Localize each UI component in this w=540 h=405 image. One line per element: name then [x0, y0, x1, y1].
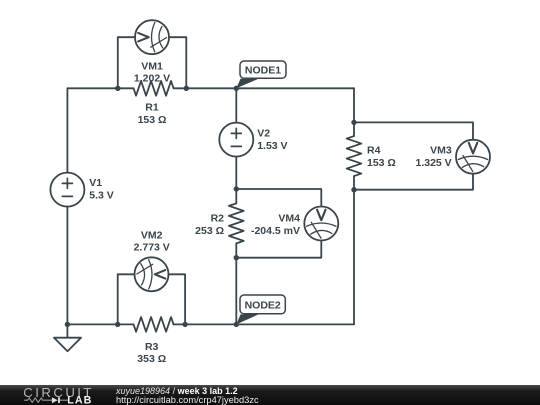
svg-text:1.325 V: 1.325 V — [415, 157, 451, 169]
resistor R4 — [347, 136, 362, 176]
wire left branch upper — [66, 88, 68, 172]
node flag NODE2 — [236, 295, 285, 324]
junction ground connection — [65, 322, 70, 327]
voltage source V1 — [50, 173, 84, 207]
junction R4 bottom / VM3 loop — [351, 187, 356, 192]
ground — [54, 324, 81, 351]
voltage source V2 — [219, 123, 253, 157]
wire left branch lower — [66, 207, 68, 325]
resistor R3 — [134, 317, 174, 332]
svg-text:R4: R4 — [367, 145, 381, 157]
svg-text:-204.5 mV: -204.5 mV — [251, 225, 300, 237]
wire bottom right to R3 — [174, 323, 354, 325]
footer credit line 2 — [116, 395, 259, 405]
wire voltmeter VM3 loop bottom — [354, 174, 473, 190]
svg-text:V2: V2 — [257, 128, 270, 140]
wire voltmeter VM3 loop top — [354, 122, 473, 139]
svg-text:253 Ω: 253 Ω — [195, 225, 224, 237]
svg-text:R3: R3 — [145, 341, 159, 353]
junction VM2 left on bottom wire — [115, 322, 120, 327]
voltmeter VM3 — [456, 140, 490, 174]
resistor R2 — [229, 203, 244, 243]
junction VM2 right on bottom wire — [182, 322, 187, 327]
svg-text:VM2: VM2 — [141, 229, 163, 241]
svg-text:5.3 V: 5.3 V — [89, 190, 114, 202]
wire V2 to R2 — [235, 157, 237, 204]
junction R2 bottom / VM4 loop — [234, 255, 239, 260]
wire voltmeter VM1 loop right — [169, 37, 186, 88]
wire voltmeter VM4 loop bottom — [236, 241, 321, 258]
svg-text:153 Ω: 153 Ω — [367, 157, 396, 169]
wire voltmeter VM1 loop left — [118, 37, 135, 88]
wire top from left corner to R1 — [67, 87, 133, 89]
junction R4 top / VM3 loop — [351, 120, 356, 125]
footer bar — [0, 385, 540, 405]
junction VM1 left on top wire — [115, 86, 120, 91]
svg-text:153 Ω: 153 Ω — [138, 114, 167, 126]
node flag NODE1 — [236, 61, 286, 88]
svg-text:1.202 V: 1.202 V — [134, 73, 170, 85]
svg-text:VM4: VM4 — [278, 213, 300, 225]
svg-text:353 Ω: 353 Ω — [137, 353, 166, 365]
svg-text:V1: V1 — [89, 177, 102, 189]
wire middle branch node1 to V2 — [235, 88, 237, 122]
svg-text:1.53 V: 1.53 V — [257, 140, 287, 152]
wire voltmeter VM4 loop top — [236, 189, 321, 207]
junction node NODE1 — [234, 86, 239, 91]
svg-text:NODE2: NODE2 — [245, 299, 281, 311]
wire voltmeter VM2 loop left — [118, 274, 135, 324]
voltmeter VM2 — [135, 257, 169, 291]
voltmeter VM1 — [135, 20, 169, 54]
wire bottom left of R3 — [67, 323, 133, 325]
wire right branch upper — [353, 88, 355, 136]
schematic labels — [89, 60, 452, 365]
resistor R1 — [134, 81, 174, 96]
svg-text:2.773 V: 2.773 V — [134, 242, 170, 254]
svg-text:NODE1: NODE1 — [245, 65, 281, 77]
svg-text:R1: R1 — [145, 102, 159, 114]
svg-text:VM3: VM3 — [430, 145, 452, 157]
wire voltmeter VM2 loop right — [169, 274, 186, 324]
wire right branch lower — [353, 176, 355, 324]
CircuitLab logo — [22, 385, 122, 405]
footer credit line 1 — [116, 386, 238, 396]
svg-text:LAB: LAB — [67, 394, 92, 405]
junction VM1 right on top wire — [184, 86, 189, 91]
junction R2 top / VM4 loop — [234, 186, 239, 191]
voltmeter VM4 — [304, 207, 338, 241]
svg-text:VM1: VM1 — [141, 60, 163, 72]
wire top from R1 to right corner — [174, 87, 354, 89]
svg-text:R2: R2 — [211, 213, 225, 225]
wire R2 to node2 — [235, 243, 237, 324]
junction node NODE2 — [234, 322, 239, 327]
